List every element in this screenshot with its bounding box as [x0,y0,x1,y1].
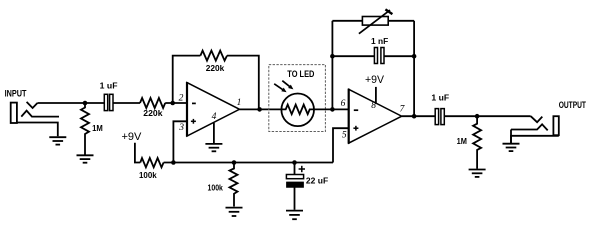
svg-text:1 nF: 1 nF [371,36,388,46]
variable resistor VR1 body [362,17,388,26]
plus sign C2 [299,166,305,172]
photoresistor LDR1 zigzag [281,105,314,115]
node A (input/1M junction) [83,101,88,106]
dashed optocoupler box [269,65,326,132]
input jack ring contact [21,111,59,117]
capacitor C1 1 uF [104,94,113,110]
svg-text:1M: 1M [457,136,467,146]
capacitor C2 22 uF stem [294,163,296,175]
svg-text:4: 4 [212,112,217,122]
wire input to cap [37,102,104,104]
svg-text:TO LED: TO LED [287,69,314,79]
input jack sleeve wire [17,123,58,137]
ground (R5) [226,208,243,216]
svg-text:220k: 220k [143,108,162,118]
node B (feedback/pin2 junction) [170,101,175,106]
feedback-2 right vertical wire [413,21,415,116]
resistor R2 220k (series) [140,98,165,108]
wire R2 to pin 2 [165,102,187,104]
output jack ring contact [511,124,548,130]
svg-text:+9V: +9V [122,131,143,143]
capacitor C4 1 uF [435,109,444,125]
output jack sleeve wire [511,136,559,143]
plus sign U1b [353,126,358,131]
wire cap to R2 [113,102,140,104]
node J (feedback right junction) [412,114,417,119]
plus sign U1a [191,119,196,124]
node H [330,54,335,59]
svg-text:6: 6 [341,99,346,109]
ground (output jack) [503,144,520,151]
node I [412,54,417,59]
op-amp U1a triangle [187,83,240,136]
svg-text:+9V: +9V [365,74,385,86]
wire feedback right vertical [227,56,259,110]
svg-text:100k: 100k [208,183,224,193]
ground (R1) [77,155,94,162]
svg-text:INPUT: INPUT [5,88,27,98]
feedback-2 left vertical wire [331,21,333,110]
svg-text:100k: 100k [139,170,157,180]
node C (pin1 output junction) [257,107,262,112]
pin 4 ground stem [213,123,215,144]
variable resistor VR1 arrow [359,9,393,33]
svg-text:1 uF: 1 uF [431,93,449,103]
top rail wire [332,20,414,22]
wire C2 to ground [294,188,296,210]
input jack J1 plug body [11,103,17,123]
capacitor C3 1 nF [374,48,384,64]
wire U1a output [240,108,286,110]
wire rail to pin 5 [333,128,349,162]
pin 8 stem wire [375,87,377,104]
svg-text:5: 5 [342,130,347,140]
ground (C2) [286,211,303,220]
light arrow 1 [274,84,286,92]
resistor R6 1M (output pulldown) [473,116,481,169]
wire pin 3 [173,121,187,162]
svg-text:22 uF: 22 uF [306,175,328,185]
node F (22uF junction) [292,160,297,165]
svg-text:1 uF: 1 uF [100,81,118,91]
wire +9V drop [135,143,140,163]
ground (R6) [469,170,486,177]
node K (1M junction) [475,114,480,119]
wire LDR to pin 6 [314,108,349,110]
wire U1b output [402,115,435,117]
op-amp U1b triangle [349,89,402,143]
svg-text:220k: 220k [206,63,225,73]
output jack tip contact [531,116,543,122]
mid feedback rail wire [332,55,374,57]
minus sign U1b [354,109,358,111]
output jack plug body [553,116,558,135]
svg-text:3: 3 [178,123,184,133]
photoresistor LDR1 circle [281,94,314,127]
input jack tip contact [27,102,38,108]
svg-text:1: 1 [237,98,242,108]
ground (U1a pin4) [205,144,222,151]
svg-text:1M: 1M [92,123,103,133]
svg-text:OUTPUT: OUTPUT [559,100,587,110]
vertical ring-to-ground [510,130,512,144]
resistor R5 100k (pulldown) [230,163,238,207]
resistor R4 100k (series bias) [140,158,163,167]
bias rail wire [164,162,333,164]
svg-text:2: 2 [179,93,184,103]
resistor R3 220k (feedback) [200,51,227,61]
node G (pin 6 / feedback junction) [330,107,335,112]
ground (input jack) [49,137,66,144]
minus sign U1a [192,102,196,104]
light arrow 2 [282,81,293,90]
node E (100k pulldown junction) [232,160,237,165]
wire feedback left vertical [173,56,201,103]
node D (pin3 junction) [171,160,176,165]
resistor R1 1M (input pulldown) [81,103,89,155]
capacitor C2 22 uF plates [286,175,303,188]
wire C4 to jack [445,115,531,117]
